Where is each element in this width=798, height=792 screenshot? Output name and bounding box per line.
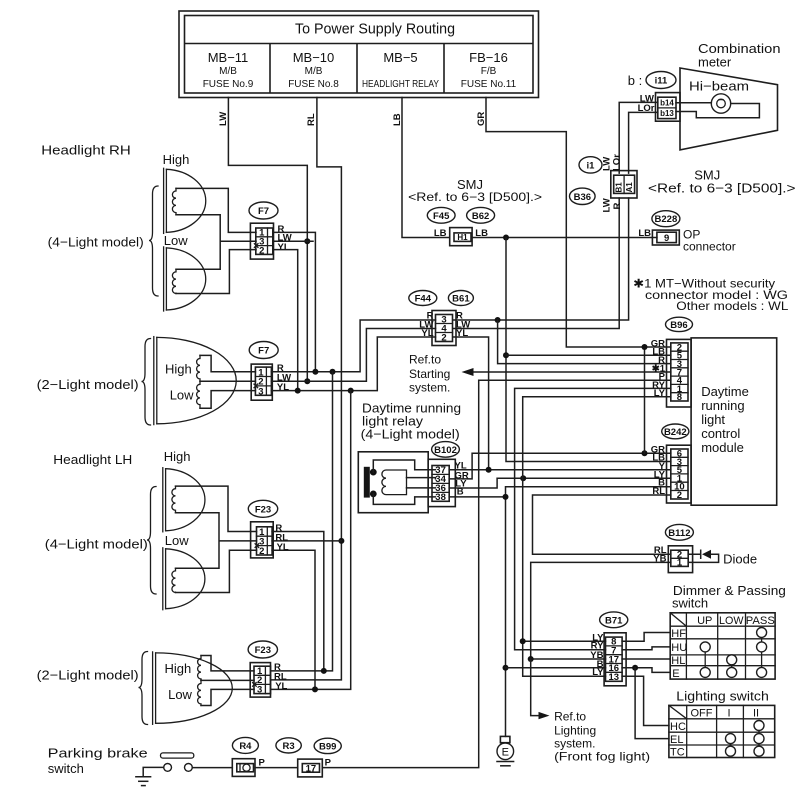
- lamp RH low-beam filament coil: [172, 269, 176, 293]
- svg-text:HU: HU: [671, 642, 687, 654]
- labels left of B112: [653, 545, 666, 565]
- wire hi-beam lamp feed: [676, 102, 711, 104]
- connector i11 pins b14 b13: [656, 93, 681, 122]
- svg-text:(4−Light model): (4−Light model): [361, 427, 460, 442]
- svg-text:LW: LW: [218, 112, 229, 126]
- svg-text:HEADLIGHT RELAY: HEADLIGHT RELAY: [362, 79, 439, 90]
- svg-text:Lighting switch: Lighting switch: [676, 689, 769, 704]
- wire YL row: F7 2-light to F44: [271, 337, 435, 391]
- svg-text:meter: meter: [698, 55, 732, 70]
- svg-text:HC: HC: [670, 721, 686, 733]
- label SMJ (F45/B62): [408, 177, 542, 204]
- svg-text:<Ref. to 6−3 [D500].>: <Ref. to 6−3 [D500].>: [408, 190, 542, 204]
- lighting switch contact lines: [731, 726, 760, 752]
- svg-text:TC: TC: [670, 747, 685, 759]
- connector R4: [232, 737, 258, 776]
- lamp hi-beam indicator: [711, 94, 730, 113]
- svg-text:module: module: [701, 440, 744, 455]
- wire LW trunk from MB-11: [218, 98, 307, 382]
- junction RL at F23 LH pin3: [338, 538, 344, 544]
- lamp LH high-beam (4-light) glass: [163, 468, 205, 532]
- brace (2-Light model) LH: [139, 652, 148, 725]
- wire relay coil to pin 36: [407, 487, 436, 489]
- connector B71 pins 8 7 17 16 13: [604, 633, 626, 686]
- svg-text:OFF: OFF: [691, 708, 713, 720]
- junction LB at B96: [503, 352, 509, 358]
- svg-text:LW: LW: [602, 198, 613, 212]
- combination meter body: [680, 68, 778, 150]
- svg-text:(2−Light model): (2−Light model): [37, 377, 139, 392]
- svg-text:Low: Low: [164, 233, 188, 248]
- junction GR at B96 row: [642, 344, 648, 350]
- lamp RH low-beam (4-light) glass: [164, 247, 206, 311]
- wire B71 pin7 to dimmer HU row: [622, 647, 670, 650]
- lamp LH 2-light high filament coil: [198, 656, 201, 681]
- svg-text:B102: B102: [434, 445, 457, 456]
- svg-text:3: 3: [257, 685, 262, 696]
- wire relay contact to pin 38: [373, 494, 435, 505]
- svg-text:2: 2: [441, 332, 446, 343]
- lamp RH high-beam (4-light) glass: [164, 168, 206, 233]
- svg-text:switch: switch: [48, 761, 84, 776]
- svg-text:To Power Supply Routing: To Power Supply Routing: [295, 21, 455, 38]
- lamp LH low-beam (4-light) glass: [163, 548, 205, 610]
- junction LB at H1 row: [503, 235, 509, 241]
- wire EL row to junction: [635, 668, 669, 739]
- svg-text:1: 1: [677, 558, 683, 569]
- connector oval F44: [409, 291, 437, 306]
- connector oval B62: [467, 207, 495, 223]
- diode symbol: [688, 550, 718, 563]
- svg-text:YL: YL: [278, 242, 290, 253]
- svg-text:R: R: [612, 203, 623, 210]
- junction R trunk branch: [330, 369, 336, 375]
- wire *1: B96 pin7 with arrow to starting system: [462, 368, 671, 376]
- wire RL: B242 pin2 to B112 pin2: [533, 495, 671, 554]
- svg-text:EL: EL: [670, 734, 683, 746]
- wire YB: B112 pin1 to B71 pin17: [531, 562, 671, 659]
- wire LB trunk down to B242: [506, 238, 671, 462]
- svg-text:HL: HL: [671, 655, 685, 667]
- svg-text:light: light: [701, 412, 725, 427]
- svg-text:B71: B71: [605, 615, 623, 626]
- svg-text:F7: F7: [258, 346, 269, 357]
- wire YL: B61 to B102/B242 row: [453, 337, 489, 470]
- wire YL: 2-light RH low to F7 pin3: [200, 391, 255, 409]
- labels left of B71: [590, 632, 604, 678]
- labels right of B61: [456, 311, 470, 340]
- connector B99: [298, 738, 342, 777]
- wire R row: F7 2-light to F44: [271, 320, 435, 372]
- lamp RH 2-light low filament coil: [197, 381, 200, 408]
- svg-text:2: 2: [677, 490, 682, 501]
- junction R at x315: [312, 369, 318, 375]
- label Combination meter: [698, 41, 781, 70]
- svg-text:High: High: [165, 362, 192, 377]
- relay B102 body: [358, 452, 428, 513]
- svg-text:YL: YL: [277, 542, 289, 553]
- wire R: F23 LH down to 2-light row: [272, 532, 324, 671]
- connector oval B228: [652, 211, 680, 227]
- parking brake switch symbol: [161, 753, 194, 771]
- label Daytime running light relay (4-Light model): [361, 401, 461, 442]
- junction R row to B96: [495, 317, 501, 323]
- svg-text:FUSE No.11: FUSE No.11: [461, 79, 517, 90]
- svg-text:B99: B99: [319, 742, 336, 753]
- label Dimmer & Passing switch: [672, 583, 786, 611]
- fuse MB-10 label: [288, 50, 339, 90]
- wire YL: F7 RH to F7 2-light row: [273, 250, 298, 391]
- svg-text:E: E: [672, 668, 679, 680]
- svg-text:2: 2: [259, 245, 264, 256]
- label Ref.to Lighting system (Front fog light): [554, 710, 650, 764]
- wire R: 2-light RH high to F7 pin1: [200, 355, 255, 371]
- connector oval i11: [646, 72, 676, 89]
- junction LY at B242 row: [520, 475, 526, 481]
- svg-text:Other models : WL: Other models : WL: [676, 299, 788, 313]
- svg-text:M/B: M/B: [219, 66, 237, 77]
- label Parking brake switch: [48, 746, 148, 777]
- svg-text:Lighting: Lighting: [554, 724, 596, 738]
- junction YL trunk branch: [348, 388, 354, 394]
- svg-text:LB: LB: [638, 228, 651, 239]
- svg-text:LB: LB: [392, 113, 403, 126]
- wire LB: H1 to OP connector: [472, 237, 657, 239]
- connector oval F45: [427, 207, 455, 223]
- svg-text:3: 3: [258, 386, 263, 397]
- svg-text:R4: R4: [239, 741, 252, 752]
- wire B: B102 pin38 ground net: [449, 487, 671, 737]
- wire LB from MB-5 to SMJ H1: [392, 98, 450, 238]
- svg-text:Low: Low: [165, 533, 189, 548]
- svg-text:Diode: Diode: [723, 552, 757, 567]
- wire B71 pin17 to dimmer HL row: [622, 658, 670, 661]
- svg-text:LY: LY: [654, 388, 666, 399]
- wire LY: B96 pin8 to B71 pins: [523, 397, 671, 677]
- wire GR: B102 pin34 to B242 row: [449, 453, 671, 479]
- svg-text:Daytime: Daytime: [701, 384, 749, 399]
- label OP connector: [683, 228, 736, 254]
- wire YL trunk to LH lights: [271, 391, 351, 690]
- svg-text:M/B: M/B: [305, 66, 323, 77]
- svg-text:B1: B1: [615, 182, 624, 193]
- junction YB at B71 pin17: [528, 656, 534, 662]
- wire YL: RH low lamp to F7 pin2: [176, 250, 256, 294]
- junction ground row: [503, 665, 509, 671]
- svg-text:FUSE No.8: FUSE No.8: [288, 79, 339, 90]
- svg-text:b :: b :: [628, 73, 642, 88]
- svg-text:Parking brake: Parking brake: [48, 746, 148, 761]
- lamp RH 2-light high filament coil: [197, 355, 200, 381]
- svg-text:(4−Light model): (4−Light model): [48, 235, 144, 250]
- lamp LH combined 2-light glass: [153, 652, 233, 724]
- svg-text:F7: F7: [258, 206, 269, 217]
- svg-text:B242: B242: [664, 427, 687, 438]
- junction LY at B71 pin8: [520, 638, 526, 644]
- svg-text:F/B: F/B: [481, 66, 497, 77]
- wire P: switch to connector R4: [192, 767, 232, 769]
- wire YL: B102 pin37 to B242 pin5: [449, 469, 671, 471]
- svg-text:17: 17: [306, 763, 317, 774]
- pin labels F23 LH: [275, 523, 289, 553]
- wire B71 pin16 to dimmer E row: [622, 668, 670, 673]
- svg-text:High: High: [165, 661, 192, 676]
- connector oval B71: [600, 612, 628, 628]
- dimmer switch contacts: [700, 628, 766, 678]
- wire LW row: F7 2-light to F44: [271, 329, 435, 382]
- wire GR: B96 to B242 vertical: [644, 347, 646, 453]
- svg-text:Headlight RH: Headlight RH: [41, 143, 131, 158]
- dimmer and passing switch table: [670, 613, 775, 680]
- svg-text:B96: B96: [670, 320, 687, 331]
- wire R trunk to LH lights: [271, 372, 333, 671]
- junction B at B71 pin16: [632, 665, 638, 671]
- junction YL at x297: [295, 388, 301, 394]
- svg-text:connector: connector: [683, 240, 736, 254]
- junction B at B102 row: [503, 494, 509, 500]
- labels left of F44: [419, 311, 433, 340]
- svg-text:38: 38: [435, 492, 446, 503]
- connector F7 (RH 2-light): [249, 342, 278, 401]
- svg-text:II: II: [753, 708, 759, 720]
- connector B242 pins 6 3 5 1 10 2: [667, 445, 692, 503]
- svg-text:b14: b14: [660, 98, 674, 107]
- svg-text:i1: i1: [587, 160, 596, 171]
- svg-text:Starting: Starting: [409, 367, 450, 381]
- junction GR at B242 row: [642, 450, 648, 456]
- wire LOr: i11 b13 to B36: [612, 112, 658, 173]
- pin labels F23 2-light: [274, 662, 288, 692]
- wire LW: i11 b14 to B36: [602, 102, 658, 173]
- junction LW at F7 RH pin3: [304, 238, 310, 244]
- wire R: 2-light LH high to F23 pin1: [201, 656, 254, 671]
- junction R at F23 2-light: [321, 668, 327, 674]
- svg-text:control: control: [701, 426, 740, 441]
- svg-text:MB−11: MB−11: [208, 50, 249, 65]
- lamp LH low-beam filament coil: [172, 568, 176, 592]
- relay coil: [382, 470, 407, 495]
- svg-text:b13: b13: [660, 109, 674, 118]
- wire B71 pin13 to lighting switch HC row: [622, 676, 669, 725]
- lamp RH high-beam filament coil: [172, 188, 176, 214]
- labels right of B102: [455, 460, 469, 497]
- connector B36/i1 SMJ pins B1 A1: [611, 171, 637, 198]
- svg-text:switch: switch: [672, 596, 708, 611]
- junction YL at F23 2-light: [312, 686, 318, 692]
- wire RL trunk from MB-10: [271, 98, 342, 680]
- wire LB: to B96 pin5: [506, 354, 671, 356]
- connector B112 pins 2 1: [668, 546, 692, 573]
- svg-text:LOr: LOr: [612, 154, 623, 171]
- wire GR trunk from FB-16 to B96: [476, 98, 671, 348]
- svg-text:Ref.to: Ref.to: [554, 710, 586, 724]
- svg-text:UP: UP: [697, 615, 712, 627]
- svg-text:Hi−beam: Hi−beam: [689, 79, 749, 94]
- wire P: B99 to B96 pin4: [322, 380, 671, 767]
- junction LW at F7 2-light pin2: [304, 378, 310, 384]
- svg-text:LOW: LOW: [719, 615, 744, 627]
- label SMJ right: [648, 168, 796, 196]
- svg-text:system.: system.: [409, 381, 450, 395]
- svg-text:B36: B36: [574, 192, 591, 203]
- connector oval R3: [276, 738, 301, 753]
- svg-text:H1: H1: [457, 233, 468, 242]
- svg-text:High: High: [163, 152, 190, 167]
- svg-text:B112: B112: [668, 528, 690, 539]
- wire RL row: F23 LH to RL trunk: [272, 540, 341, 542]
- svg-text:13: 13: [609, 672, 620, 683]
- lighting switch contacts: [726, 721, 765, 757]
- note *1 MT models: [633, 277, 789, 314]
- svg-text:B62: B62: [472, 211, 489, 222]
- svg-text:E: E: [502, 746, 509, 758]
- svg-text:MB−5: MB−5: [383, 50, 417, 65]
- wire LW: 2-light RH mid to F7 pin2: [200, 380, 255, 382]
- brace (4-Light model) LH: [45, 487, 156, 595]
- svg-text:A1: A1: [625, 182, 634, 193]
- svg-text:High: High: [164, 449, 191, 464]
- brace (4-Light model) RH: [48, 186, 158, 296]
- lighting switch table: [669, 705, 775, 758]
- lamp RH combined 2-light glass: [154, 337, 236, 425]
- junction YL at B102 row: [486, 467, 492, 473]
- connector oval B112: [665, 524, 693, 540]
- pin labels F7 RH: [278, 224, 292, 253]
- svg-text:F44: F44: [415, 294, 432, 305]
- wire R: B36 down to B61 pin3: [453, 198, 629, 320]
- wire YL: 2-light LH low to F23 pin3: [201, 689, 254, 705]
- connector B228 OP pin 9: [652, 230, 679, 245]
- svg-text:Low: Low: [168, 687, 192, 702]
- connector oval i1: [579, 157, 602, 173]
- svg-text:PASS: PASS: [746, 615, 775, 627]
- svg-text:(2−Light model): (2−Light model): [37, 668, 139, 683]
- wire hi-beam lamp return: [676, 104, 759, 118]
- svg-text:YL: YL: [275, 681, 287, 692]
- svg-text:LB: LB: [434, 228, 447, 239]
- wire LW: B36 down to B61 pin4: [453, 198, 619, 329]
- lamp LH 2-light low filament coil: [198, 680, 201, 705]
- wire RY: B96 pin1 to B71 pin7: [515, 388, 671, 649]
- wire LY branch to B71 pin8: [523, 640, 606, 642]
- svg-text:9: 9: [664, 233, 669, 244]
- wire LW: RH high lamp bottom / low lamp top to F7 pin3: [176, 215, 256, 269]
- wire relay contact to pin 37: [373, 460, 435, 472]
- connector B102 pins 37 34 36 38: [428, 459, 455, 506]
- wire relay coil to pin 34: [407, 478, 436, 479]
- fuse FB-16 label: [461, 50, 517, 90]
- svg-text:Ref.to: Ref.to: [409, 353, 441, 367]
- svg-text:GR: GR: [476, 112, 487, 126]
- svg-text:I: I: [728, 708, 731, 720]
- connector F44/B61 pins 3 4 2: [432, 311, 456, 346]
- pin labels F7 2-light: [277, 363, 291, 393]
- svg-text:HF: HF: [671, 628, 686, 640]
- svg-text:B61: B61: [452, 294, 470, 305]
- svg-text:R3: R3: [283, 741, 295, 752]
- wire YB arrow to lighting system: [531, 659, 550, 719]
- svg-text:LY: LY: [592, 667, 604, 678]
- ground at parking brake switch: [136, 767, 164, 785]
- labels left of B96: [651, 338, 666, 399]
- wire RL: LH high bottom / low top to F23 pin3: [176, 513, 257, 569]
- wire R: LH high lamp to F23 pin1: [176, 486, 257, 531]
- svg-text:(Front fog light): (Front fog light): [554, 750, 650, 764]
- svg-text:FUSE No.9: FUSE No.9: [203, 79, 254, 90]
- relay contact: [364, 467, 377, 498]
- wire B: ground row to B71 pin16: [506, 667, 606, 669]
- module box daytime running light control module: [691, 338, 777, 505]
- svg-text:system.: system.: [554, 737, 595, 751]
- power supply routing box: [179, 11, 539, 98]
- svg-text:FB−16: FB−16: [469, 50, 508, 65]
- wire B71 pin8 to dimmer HF row: [622, 633, 670, 642]
- wire RL: 2-light LH mid to F23 pin2: [201, 679, 254, 682]
- svg-text:(4−Light model): (4−Light model): [45, 537, 148, 552]
- wire LW stub at F7 RH pin3: [273, 240, 313, 242]
- wire YL: F23 LH down to 2-light row: [272, 550, 315, 689]
- wire R: F7 RH to F7 2-light row: [273, 232, 316, 371]
- lamp LH high-beam filament coil: [172, 486, 176, 513]
- connector oval B96: [666, 317, 693, 331]
- label Ref.to Starting system: [409, 353, 450, 395]
- svg-text:8: 8: [677, 392, 682, 403]
- svg-text:MB−10: MB−10: [293, 50, 335, 65]
- svg-text:YB: YB: [653, 553, 666, 564]
- wire LY: B102 pin36 to B242 pin1: [449, 478, 671, 488]
- ground E symbol: [497, 736, 514, 765]
- wire YL: LH low lamp to F23 pin2: [176, 550, 257, 592]
- relay MB-5 label: [362, 50, 439, 90]
- svg-text:<Ref. to 6−3 [D500].>: <Ref. to 6−3 [D500].>: [648, 181, 796, 196]
- svg-text:B228: B228: [655, 214, 678, 225]
- svg-text:F45: F45: [433, 211, 450, 222]
- svg-text:running: running: [701, 398, 744, 413]
- wire P: R4 to B99: [255, 767, 298, 769]
- connector oval B102: [432, 442, 460, 458]
- svg-text:RL: RL: [306, 113, 317, 126]
- connector H1 (SMJ): [450, 228, 472, 246]
- svg-text:i11: i11: [655, 76, 668, 87]
- svg-text:2: 2: [259, 546, 264, 557]
- connector oval B36: [570, 188, 596, 204]
- fuse MB-11 label: [203, 50, 254, 90]
- brace (2-Light model) RH: [142, 339, 151, 426]
- wire R: RH high lamp to F7 pin1: [176, 188, 256, 232]
- connector F23 (LH 2-light): [248, 641, 277, 697]
- connector F23 (LH 4-light): [248, 500, 277, 558]
- svg-text:F23: F23: [255, 645, 271, 656]
- svg-text:Low: Low: [170, 388, 194, 403]
- connector B96 pins 2 5 3 7 4 1 8: [667, 339, 692, 407]
- svg-text:Headlight LH: Headlight LH: [53, 452, 132, 467]
- connector oval B61: [448, 291, 473, 306]
- dimmer switch contact lines: [705, 633, 761, 673]
- connector oval B242: [662, 424, 689, 439]
- svg-text:F23: F23: [255, 504, 271, 515]
- wire R: B61 row to B96 pin3: [498, 320, 671, 364]
- labels left of B242: [651, 444, 666, 497]
- connector F7 (RH 4-light): [249, 202, 278, 259]
